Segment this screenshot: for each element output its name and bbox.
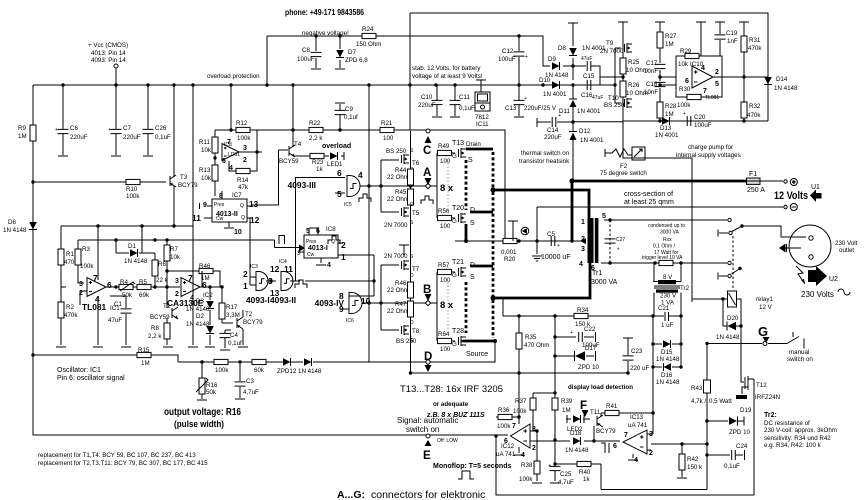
svg-text:BCY59: BCY59 <box>279 158 299 165</box>
svg-text:ZPD 10: ZPD 10 <box>729 429 751 436</box>
svg-text:R7: R7 <box>170 246 178 253</box>
svg-text:D16: D16 <box>661 372 673 379</box>
svg-text:3: 3 <box>581 246 585 253</box>
svg-text:470k: 470k <box>748 45 762 52</box>
svg-text:5: 5 <box>337 189 342 199</box>
svg-text:switch on: switch on <box>406 425 439 434</box>
svg-text:2: 2 <box>715 69 719 76</box>
svg-text:T13...T28: 16x IRF 3205: T13...T28: 16x IRF 3205 <box>400 384 503 395</box>
svg-text:R47: R47 <box>395 301 407 308</box>
svg-text:2: 2 <box>243 157 247 164</box>
svg-text:220uF: 220uF <box>123 134 141 141</box>
svg-text:+: + <box>558 113 561 119</box>
svg-text:R13: R13 <box>199 167 211 174</box>
svg-text:D: D <box>410 320 414 326</box>
svg-text:Tr2: Tr2 <box>680 285 690 292</box>
svg-text:+: + <box>55 127 58 133</box>
svg-text:R46: R46 <box>199 263 211 270</box>
svg-text:D20: D20 <box>727 315 739 322</box>
svg-text:R4: R4 <box>120 279 128 286</box>
svg-text:1N 4148: 1N 4148 <box>774 85 798 92</box>
svg-text:R29: R29 <box>680 48 692 55</box>
svg-text:R16: R16 <box>206 382 218 389</box>
svg-text:4: 4 <box>579 261 583 268</box>
svg-text:+ Vcc (CMOS): + Vcc (CMOS) <box>88 42 128 49</box>
svg-text:100uF: 100uF <box>297 56 315 63</box>
svg-text:+: + <box>108 127 111 133</box>
svg-text:1: 1 <box>341 252 346 262</box>
svg-text:R10: R10 <box>126 186 138 193</box>
svg-text:R37: R37 <box>515 398 527 405</box>
svg-text:1k: 1k <box>316 166 323 173</box>
svg-text:230 V: 230 V <box>660 293 677 300</box>
svg-text:2: 2 <box>243 269 248 279</box>
svg-text:10k: 10k <box>678 61 689 68</box>
svg-text:ZPD 10: ZPD 10 <box>578 364 600 371</box>
svg-text:8 V: 8 V <box>663 274 673 281</box>
svg-text:T10: T10 <box>608 95 619 102</box>
svg-text:replacement for T2,T3,T11: BCY: replacement for T2,T3,T11: BCY 79, BC 30… <box>38 460 208 467</box>
svg-text:10nF: 10nF <box>644 68 658 75</box>
svg-text:R6: R6 <box>158 261 166 268</box>
svg-text:D2: D2 <box>196 313 204 320</box>
svg-text:U1: U1 <box>811 184 820 191</box>
svg-text:8 x: 8 x <box>440 300 454 311</box>
svg-text:22 Ohm: 22 Ohm <box>387 196 409 203</box>
svg-text:BS 250: BS 250 <box>604 102 625 109</box>
svg-text:D7: D7 <box>348 49 356 56</box>
svg-text:IC3: IC3 <box>250 264 258 270</box>
svg-text:R45: R45 <box>395 189 407 196</box>
svg-text:4093-I: 4093-I <box>246 295 270 305</box>
svg-text:4093-IV: 4093-IV <box>315 298 345 308</box>
svg-text:0,1uf: 0,1uf <box>344 114 358 121</box>
svg-text:4: 4 <box>358 170 363 180</box>
svg-text:4: 4 <box>327 262 331 269</box>
svg-text:47k: 47k <box>238 184 249 191</box>
svg-text:internal supply voltages: internal supply voltages <box>676 152 741 159</box>
svg-text:C15: C15 <box>583 73 595 80</box>
svg-text:LD81: LD81 <box>228 152 240 158</box>
svg-text:3,3M: 3,3M <box>226 312 240 319</box>
svg-text:2: 2 <box>175 291 179 298</box>
svg-text:output voltage: R16: output voltage: R16 <box>164 406 241 418</box>
svg-text:+: + <box>683 111 686 117</box>
svg-text:220 uF: 220 uF <box>630 365 649 372</box>
svg-text:100k: 100k <box>237 135 251 142</box>
svg-text:470k: 470k <box>64 312 78 319</box>
svg-text:D10: D10 <box>539 77 551 84</box>
svg-text:6: 6 <box>107 280 112 290</box>
svg-text:S: S <box>470 274 475 281</box>
svg-text:C14: C14 <box>547 127 559 134</box>
svg-text:1 uF: 1 uF <box>661 322 674 329</box>
svg-text:D: D <box>410 273 414 279</box>
svg-text:T8: T8 <box>412 328 420 335</box>
svg-text:C12: C12 <box>502 48 514 55</box>
svg-text:G: G <box>452 341 457 348</box>
svg-text:3: 3 <box>175 278 179 285</box>
svg-text:1N 4148: 1N 4148 <box>298 368 322 375</box>
svg-text:3: 3 <box>243 145 247 152</box>
svg-text:C22: C22 <box>584 326 596 333</box>
svg-text:R9: R9 <box>18 125 26 132</box>
svg-text:phone: +49-171 9843586: phone: +49-171 9843586 <box>285 7 364 17</box>
svg-text:Q: Q <box>240 203 244 209</box>
svg-text:1k: 1k <box>583 476 590 483</box>
svg-text:R57: R57 <box>438 262 450 269</box>
svg-text:(pulse width): (pulse width) <box>174 419 224 429</box>
svg-text:Monoflop: T=5 seconds: Monoflop: T=5 seconds <box>433 463 511 470</box>
svg-text:C23: C23 <box>631 348 643 355</box>
svg-text:T11: T11 <box>590 409 601 416</box>
svg-text:12 Volts: 12 Volts <box>774 190 808 202</box>
svg-text:R42: R42 <box>687 456 699 463</box>
svg-text:7: 7 <box>227 139 231 146</box>
svg-text:69k: 69k <box>139 292 150 299</box>
svg-text:Pres: Pres <box>306 239 317 245</box>
svg-text:47uF: 47uF <box>592 95 603 101</box>
svg-text:R39: R39 <box>561 398 573 405</box>
svg-text:IRFZ24N: IRFZ24N <box>755 394 780 401</box>
svg-text:7: 7 <box>188 273 193 283</box>
svg-text:10k: 10k <box>201 147 212 154</box>
svg-text:BCY79: BCY79 <box>178 182 198 189</box>
svg-text:D15: D15 <box>661 349 673 356</box>
svg-text:R22: R22 <box>309 120 321 127</box>
svg-text:100k: 100k <box>126 193 140 200</box>
svg-text:Pin 6: oscillator signal: Pin 6: oscillator signal <box>57 375 125 382</box>
svg-text:2,2 k: 2,2 k <box>309 135 323 142</box>
svg-text:thermal switch on: thermal switch on <box>521 150 570 157</box>
svg-text:1M: 1M <box>141 360 150 367</box>
svg-text:50k: 50k <box>206 389 217 396</box>
svg-text:+: + <box>570 330 573 336</box>
svg-text:Rxx: Rxx <box>663 237 672 243</box>
svg-text:C8: C8 <box>302 47 310 54</box>
svg-text:Q: Q <box>241 215 245 221</box>
svg-text:T13: T13 <box>452 140 464 147</box>
svg-text:D12: D12 <box>579 128 591 135</box>
svg-text:10k: 10k <box>170 254 181 261</box>
svg-text:+: + <box>525 54 528 60</box>
svg-text:Cw: Cw <box>216 216 224 222</box>
svg-text:Off: LOW: Off: LOW <box>437 438 458 444</box>
svg-text:T3: T3 <box>180 174 188 181</box>
svg-text:100k: 100k <box>677 102 691 109</box>
svg-text:1N 4148: 1N 4148 <box>656 379 680 386</box>
svg-text:470k: 470k <box>747 112 761 119</box>
svg-text:R26: R26 <box>628 82 640 89</box>
svg-text:TL081: TL081 <box>705 95 719 101</box>
svg-text:47uF: 47uF <box>581 56 592 62</box>
svg-text:at least 25 qmm: at least 25 qmm <box>624 199 674 206</box>
svg-text:7812: 7812 <box>475 114 489 121</box>
svg-text:0,001: 0,001 <box>501 249 517 256</box>
svg-text:100: 100 <box>440 158 451 165</box>
svg-text:1N 4001: 1N 4001 <box>655 132 679 139</box>
svg-text:100: 100 <box>383 135 394 142</box>
svg-text:D17: D17 <box>585 345 597 352</box>
svg-text:3: 3 <box>297 250 301 257</box>
svg-text:R20: R20 <box>504 256 516 263</box>
svg-text:9: 9 <box>203 202 207 209</box>
svg-text:display load detection: display load detection <box>568 384 633 391</box>
svg-text:IC13: IC13 <box>630 414 644 421</box>
svg-text:D9: D9 <box>548 56 556 63</box>
svg-text:1: 1 <box>581 219 585 226</box>
svg-text:1M: 1M <box>562 407 571 414</box>
svg-text:R21: R21 <box>381 120 393 127</box>
svg-text:5: 5 <box>715 81 719 88</box>
svg-text:1N 4148: 1N 4148 <box>3 227 27 234</box>
svg-text:R38: R38 <box>521 462 533 469</box>
svg-text:C4: C4 <box>230 332 238 339</box>
svg-text:R43: R43 <box>691 385 703 392</box>
svg-text:T6: T6 <box>412 160 420 167</box>
svg-text:T4: T4 <box>294 141 302 148</box>
svg-text:connectors for elektronic: connectors for elektronic <box>371 489 485 500</box>
svg-text:2,2 k: 2,2 k <box>148 333 162 340</box>
svg-text:100k: 100k <box>497 423 511 430</box>
svg-text:T2: T2 <box>245 311 253 318</box>
svg-text:1M: 1M <box>665 111 674 118</box>
svg-text:7: 7 <box>512 423 516 430</box>
svg-text:R23: R23 <box>312 159 324 166</box>
svg-text:10k: 10k <box>201 175 212 182</box>
svg-text:R36: R36 <box>498 407 510 414</box>
svg-text:IC11: IC11 <box>476 121 489 128</box>
svg-text:C7: C7 <box>123 125 131 132</box>
svg-text:6: 6 <box>613 443 617 450</box>
svg-text:4093: Pin 14: 4093: Pin 14 <box>91 57 126 64</box>
svg-text:C25: C25 <box>560 471 572 478</box>
svg-text:D6: D6 <box>8 219 16 226</box>
svg-text:R25: R25 <box>628 59 640 66</box>
svg-text:11: 11 <box>284 264 293 274</box>
svg-text:6: 6 <box>337 168 342 178</box>
svg-text:IC4: IC4 <box>279 259 287 265</box>
svg-text:T12: T12 <box>756 382 767 389</box>
svg-text:e.g. R34, R42: 100 k: e.g. R34, R42: 100 k <box>764 442 822 449</box>
svg-text:100uF: 100uF <box>694 122 712 129</box>
svg-text:R12: R12 <box>236 120 248 127</box>
svg-text:1M: 1M <box>665 41 674 48</box>
svg-text:10000 uF: 10000 uF <box>541 254 571 261</box>
svg-text:230 V-coil: approx. 3kOhm: 230 V-coil: approx. 3kOhm <box>764 427 837 434</box>
svg-text:D13: D13 <box>660 125 672 132</box>
svg-text:IC8: IC8 <box>326 226 336 233</box>
svg-text:1N 4148: 1N 4148 <box>186 321 210 328</box>
svg-text:3: 3 <box>79 281 83 288</box>
svg-text:10: 10 <box>234 229 242 236</box>
svg-text:transistor heatsink: transistor heatsink <box>519 158 570 165</box>
svg-text:22 Ohm: 22 Ohm <box>387 174 409 181</box>
svg-text:100k: 100k <box>513 408 527 415</box>
svg-text:R2: R2 <box>66 304 74 311</box>
svg-text:+: + <box>524 96 527 102</box>
svg-text:R40: R40 <box>579 469 591 476</box>
svg-text:7: 7 <box>93 273 98 283</box>
svg-text:1N 4148: 1N 4148 <box>716 334 740 341</box>
svg-text:C6: C6 <box>70 125 78 132</box>
svg-text:4013-I: 4013-I <box>308 245 328 252</box>
svg-text:D8: D8 <box>558 45 566 52</box>
svg-text:+: + <box>548 463 551 469</box>
svg-text:470 Ohm: 470 Ohm <box>524 342 549 349</box>
svg-text:230 Volts: 230 Volts <box>801 290 834 299</box>
svg-text:ZPD 6,8: ZPD 6,8 <box>345 57 368 64</box>
svg-text:uA 741: uA 741 <box>496 451 516 458</box>
svg-text:R14: R14 <box>237 177 249 184</box>
svg-text:R44: R44 <box>395 167 407 174</box>
svg-text:F1: F1 <box>749 171 757 178</box>
svg-text:4,7uF: 4,7uF <box>558 479 574 486</box>
svg-text:1N 4148: 1N 4148 <box>656 356 680 363</box>
svg-text:0,1uf: 0,1uf <box>228 340 242 347</box>
svg-text:100: 100 <box>440 277 451 284</box>
svg-text:C: C <box>423 145 431 157</box>
svg-text:10nF: 10nF <box>644 89 658 96</box>
svg-text:T5: T5 <box>412 210 420 217</box>
svg-text:cross-section of: cross-section of <box>624 191 673 198</box>
svg-text:T21: T21 <box>452 259 464 266</box>
svg-text:220uF: 220uF <box>70 134 88 141</box>
svg-text:C20: C20 <box>694 114 706 121</box>
svg-text:D19: D19 <box>740 407 752 414</box>
svg-text:C11: C11 <box>459 94 470 101</box>
svg-text:Drain: Drain <box>466 141 481 148</box>
svg-text:1N 4148: 1N 4148 <box>565 447 589 454</box>
svg-text:60k: 60k <box>254 367 265 374</box>
svg-text:100k: 100k <box>215 367 229 374</box>
svg-text:ZPD12: ZPD12 <box>277 368 297 375</box>
svg-text:IC12: IC12 <box>501 443 515 450</box>
svg-text:Signal: automatic: Signal: automatic <box>397 416 458 425</box>
svg-text:T7: T7 <box>412 266 420 273</box>
svg-text:230 Volt: 230 Volt <box>835 240 858 247</box>
svg-text:75 degree switch: 75 degree switch <box>600 170 647 177</box>
svg-text:12: 12 <box>270 264 280 274</box>
svg-text:150 k: 150 k <box>687 464 703 471</box>
svg-text:F2: F2 <box>620 163 628 170</box>
svg-text:E: E <box>423 450 431 462</box>
svg-text:C3: C3 <box>246 378 254 385</box>
svg-text:13: 13 <box>249 199 259 209</box>
svg-text:0,1uF: 0,1uF <box>724 463 740 470</box>
svg-text:4: 4 <box>701 65 705 72</box>
svg-text:0,1 Ohm /: 0,1 Ohm / <box>653 244 676 250</box>
svg-text:G: G <box>758 324 768 339</box>
svg-text:IC6: IC6 <box>346 318 354 324</box>
svg-text:C13: C13 <box>505 105 517 112</box>
svg-text:2N 7000: 2N 7000 <box>384 222 408 229</box>
svg-text:4013: Pin 14: 4013: Pin 14 <box>91 50 126 57</box>
svg-text:1N 4001: 1N 4001 <box>580 137 604 144</box>
svg-text:R64: R64 <box>438 331 450 338</box>
svg-text:47uF: 47uF <box>108 317 122 324</box>
svg-text:R1: R1 <box>66 251 74 258</box>
svg-text:manual: manual <box>789 349 809 356</box>
svg-text:4093-II: 4093-II <box>270 295 296 305</box>
svg-text:R17: R17 <box>226 304 238 311</box>
svg-text:uA 741: uA 741 <box>628 422 648 429</box>
svg-text:+: + <box>557 243 560 249</box>
svg-text:BCY79: BCY79 <box>596 428 616 435</box>
svg-text:R49: R49 <box>438 143 450 150</box>
svg-text:overload protection: overload protection <box>207 73 260 80</box>
svg-text:switch on: switch on <box>787 356 813 363</box>
svg-text:220uF: 220uF <box>544 134 562 141</box>
svg-text:IC7: IC7 <box>232 192 242 199</box>
svg-text:3000 VA: 3000 VA <box>660 230 679 236</box>
svg-text:negative voltage!: negative voltage! <box>302 30 349 37</box>
svg-text:relay1: relay1 <box>756 296 773 303</box>
svg-text:stab. 12 Volts, for battery: stab. 12 Volts, for battery <box>412 65 481 72</box>
svg-text:outlet: outlet <box>839 247 854 254</box>
svg-text:LED2: LED2 <box>567 426 583 433</box>
svg-text:1: 1 <box>243 281 248 291</box>
svg-text:R34: R34 <box>577 307 589 314</box>
svg-text:charge pump for: charge pump for <box>688 144 733 151</box>
svg-text:6: 6 <box>685 78 689 85</box>
svg-text:1N 4001: 1N 4001 <box>543 91 567 98</box>
svg-text:C1: C1 <box>114 301 122 308</box>
svg-text:R28: R28 <box>665 103 677 110</box>
svg-text:250 A: 250 A <box>747 187 765 194</box>
svg-text:1N 4148: 1N 4148 <box>186 306 210 313</box>
svg-text:12: 12 <box>250 215 260 225</box>
svg-text:220uF: 220uF <box>418 102 436 109</box>
svg-text:C18: C18 <box>646 81 658 88</box>
svg-text:IC5: IC5 <box>344 202 352 208</box>
svg-text:1M: 1M <box>18 133 27 140</box>
svg-text:7: 7 <box>703 88 707 95</box>
svg-text:C17: C17 <box>646 60 658 67</box>
svg-text:T9: T9 <box>606 40 614 47</box>
svg-text:6: 6 <box>222 158 226 165</box>
svg-text:100: 100 <box>440 346 451 353</box>
svg-text:sensitivity: R34 und R42: sensitivity: R34 und R42 <box>764 435 831 442</box>
svg-text:0,1uF: 0,1uF <box>155 134 171 141</box>
svg-text:DC resistance of: DC resistance of <box>764 420 810 427</box>
svg-text:G: G <box>452 218 457 225</box>
svg-text:R30: R30 <box>679 86 691 93</box>
svg-text:Cw: Cw <box>307 252 315 258</box>
svg-text:Source: Source <box>466 351 488 358</box>
svg-text:voltage of at least 9 Volts!: voltage of at least 9 Volts! <box>412 73 483 80</box>
svg-text:22 Ohm: 22 Ohm <box>387 287 409 294</box>
svg-text:or adequate: or adequate <box>433 401 469 408</box>
svg-text:2N 7000: 2N 7000 <box>600 48 624 55</box>
svg-text:R24: R24 <box>362 26 374 33</box>
svg-text:replacement for T1,T4:: replacement for T1,T4: BCY 59, BC 107, B… <box>38 452 196 459</box>
svg-text:A: A <box>423 167 431 179</box>
svg-text:3000 VA: 3000 VA <box>591 279 618 286</box>
svg-text:BCY79: BCY79 <box>243 319 263 326</box>
svg-text:150 Ohm: 150 Ohm <box>356 41 381 48</box>
svg-text:100uF: 100uF <box>498 56 516 63</box>
svg-text:5: 5 <box>602 213 606 220</box>
svg-text:4,7uF: 4,7uF <box>243 389 259 396</box>
svg-text:Tr1: Tr1 <box>592 270 602 277</box>
svg-text:1N 4148: 1N 4148 <box>124 258 148 265</box>
svg-text:condensed up to: condensed up to <box>648 223 685 229</box>
svg-text:G: G <box>452 272 457 279</box>
svg-text:S: S <box>468 157 473 164</box>
svg-text:0,5 Watt: 0,5 Watt <box>709 398 732 405</box>
svg-text:R35: R35 <box>525 334 537 341</box>
